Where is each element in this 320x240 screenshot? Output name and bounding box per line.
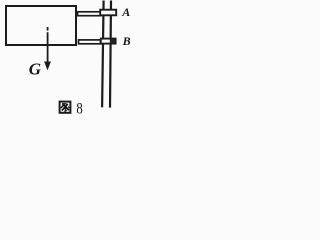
block (rectangle)	[6, 6, 76, 45]
clamp A (sleeve on pole)	[100, 10, 116, 16]
pole (vertical rod, double line)	[102, 1, 111, 108]
caption glyph 图	[60, 102, 71, 113]
svg-text:8: 8	[76, 100, 82, 118]
weight arrow head	[44, 62, 51, 71]
clamp B (sleeve on pole)	[101, 39, 116, 44]
rod B (double-line bar)	[79, 40, 101, 44]
rod A (double-line bar)	[78, 12, 101, 16]
svg-text:B: B	[122, 34, 131, 48]
clamp B dark smudge	[110, 39, 115, 43]
weight arrow shaft	[47, 27, 49, 64]
svg-text:A: A	[121, 5, 130, 19]
svg-text:G: G	[29, 59, 42, 78]
